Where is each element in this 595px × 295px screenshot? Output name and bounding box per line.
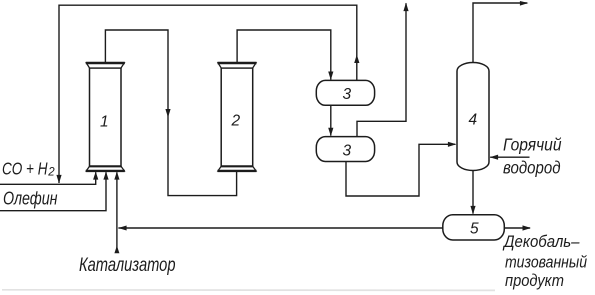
reactor column 1: [86, 63, 125, 171]
wire column 4 bottom to drum 5: [472, 170, 474, 213]
svg-text:водород: водород: [503, 158, 561, 178]
wire hot hydrogen inlet: [490, 156, 529, 158]
arrow up olefin into column 1: [103, 172, 108, 180]
wire product outlet: [504, 227, 530, 229]
arrow down on column1-column2 transfer: [165, 109, 170, 118]
wire drum 3a bottom to drum 3b top: [330, 105, 332, 135]
svg-text:Олефин: Олефин: [3, 189, 58, 209]
svg-text:2: 2: [47, 167, 55, 179]
arrow up CO+H2 into column 1: [93, 172, 98, 180]
wire recycle gas loop (drum 3a top to CO+H2 feed): [59, 5, 357, 183]
svg-text:1: 1: [100, 114, 109, 131]
svg-text:3: 3: [343, 86, 352, 103]
arrow up catalyst into column 1: [114, 172, 119, 180]
wire column 1 overhead to column 2 bottom: [105, 30, 236, 196]
scan artifact faint line: [2, 289, 495, 292]
arrow left catalyst recycle: [118, 226, 126, 231]
svg-text:2: 2: [231, 113, 241, 130]
wire CO+H2 feed line: [0, 172, 96, 184]
svg-text:CO + H: CO + H: [2, 159, 48, 179]
reactor column 2: [218, 63, 257, 171]
arrow up fresh catalyst: [114, 246, 119, 254]
wire drum 3b vent to top: [357, 3, 406, 136]
svg-text:5: 5: [470, 221, 479, 238]
wire column 2 overhead to drum 3a: [237, 30, 331, 80]
arrow down to CO+H2 line: [56, 175, 61, 184]
svg-text:тизованный: тизованный: [505, 253, 587, 271]
arrow up into recycle line: [354, 55, 359, 64]
column 4: [457, 63, 489, 171]
arrow down into drum 5: [470, 206, 475, 215]
node CO + H2 feed label: [2, 159, 55, 179]
wire catalyst recycle from drum 5: [118, 227, 442, 229]
drum 5: [443, 215, 505, 240]
separator drum 3b: [316, 137, 374, 162]
wire drum 3b bottom to column 4: [346, 144, 455, 196]
arrow right column 4 offgas: [520, 1, 529, 6]
svg-text:Катализатор: Катализатор: [79, 255, 176, 276]
separator drum 3a: [316, 80, 374, 105]
arrow down into drum 3b: [328, 128, 333, 137]
wire olefin feed line: [0, 172, 106, 210]
arrow left hydrogen into column 4: [490, 155, 499, 160]
wire column 4 overhead offgas: [473, 3, 527, 63]
arrow down into drum 3a: [328, 72, 333, 81]
svg-text:Горячий: Горячий: [503, 135, 562, 155]
svg-text:продукт: продукт: [505, 272, 564, 290]
svg-text:4: 4: [469, 112, 478, 129]
svg-text:Декобаль–: Декобаль–: [502, 233, 580, 251]
svg-text:3: 3: [343, 142, 352, 159]
wire fresh catalyst line: [116, 172, 118, 251]
arrow up vent to atmosphere: [403, 3, 408, 12]
arrow right feed into column 4: [448, 142, 457, 147]
arrow right product: [523, 225, 532, 230]
